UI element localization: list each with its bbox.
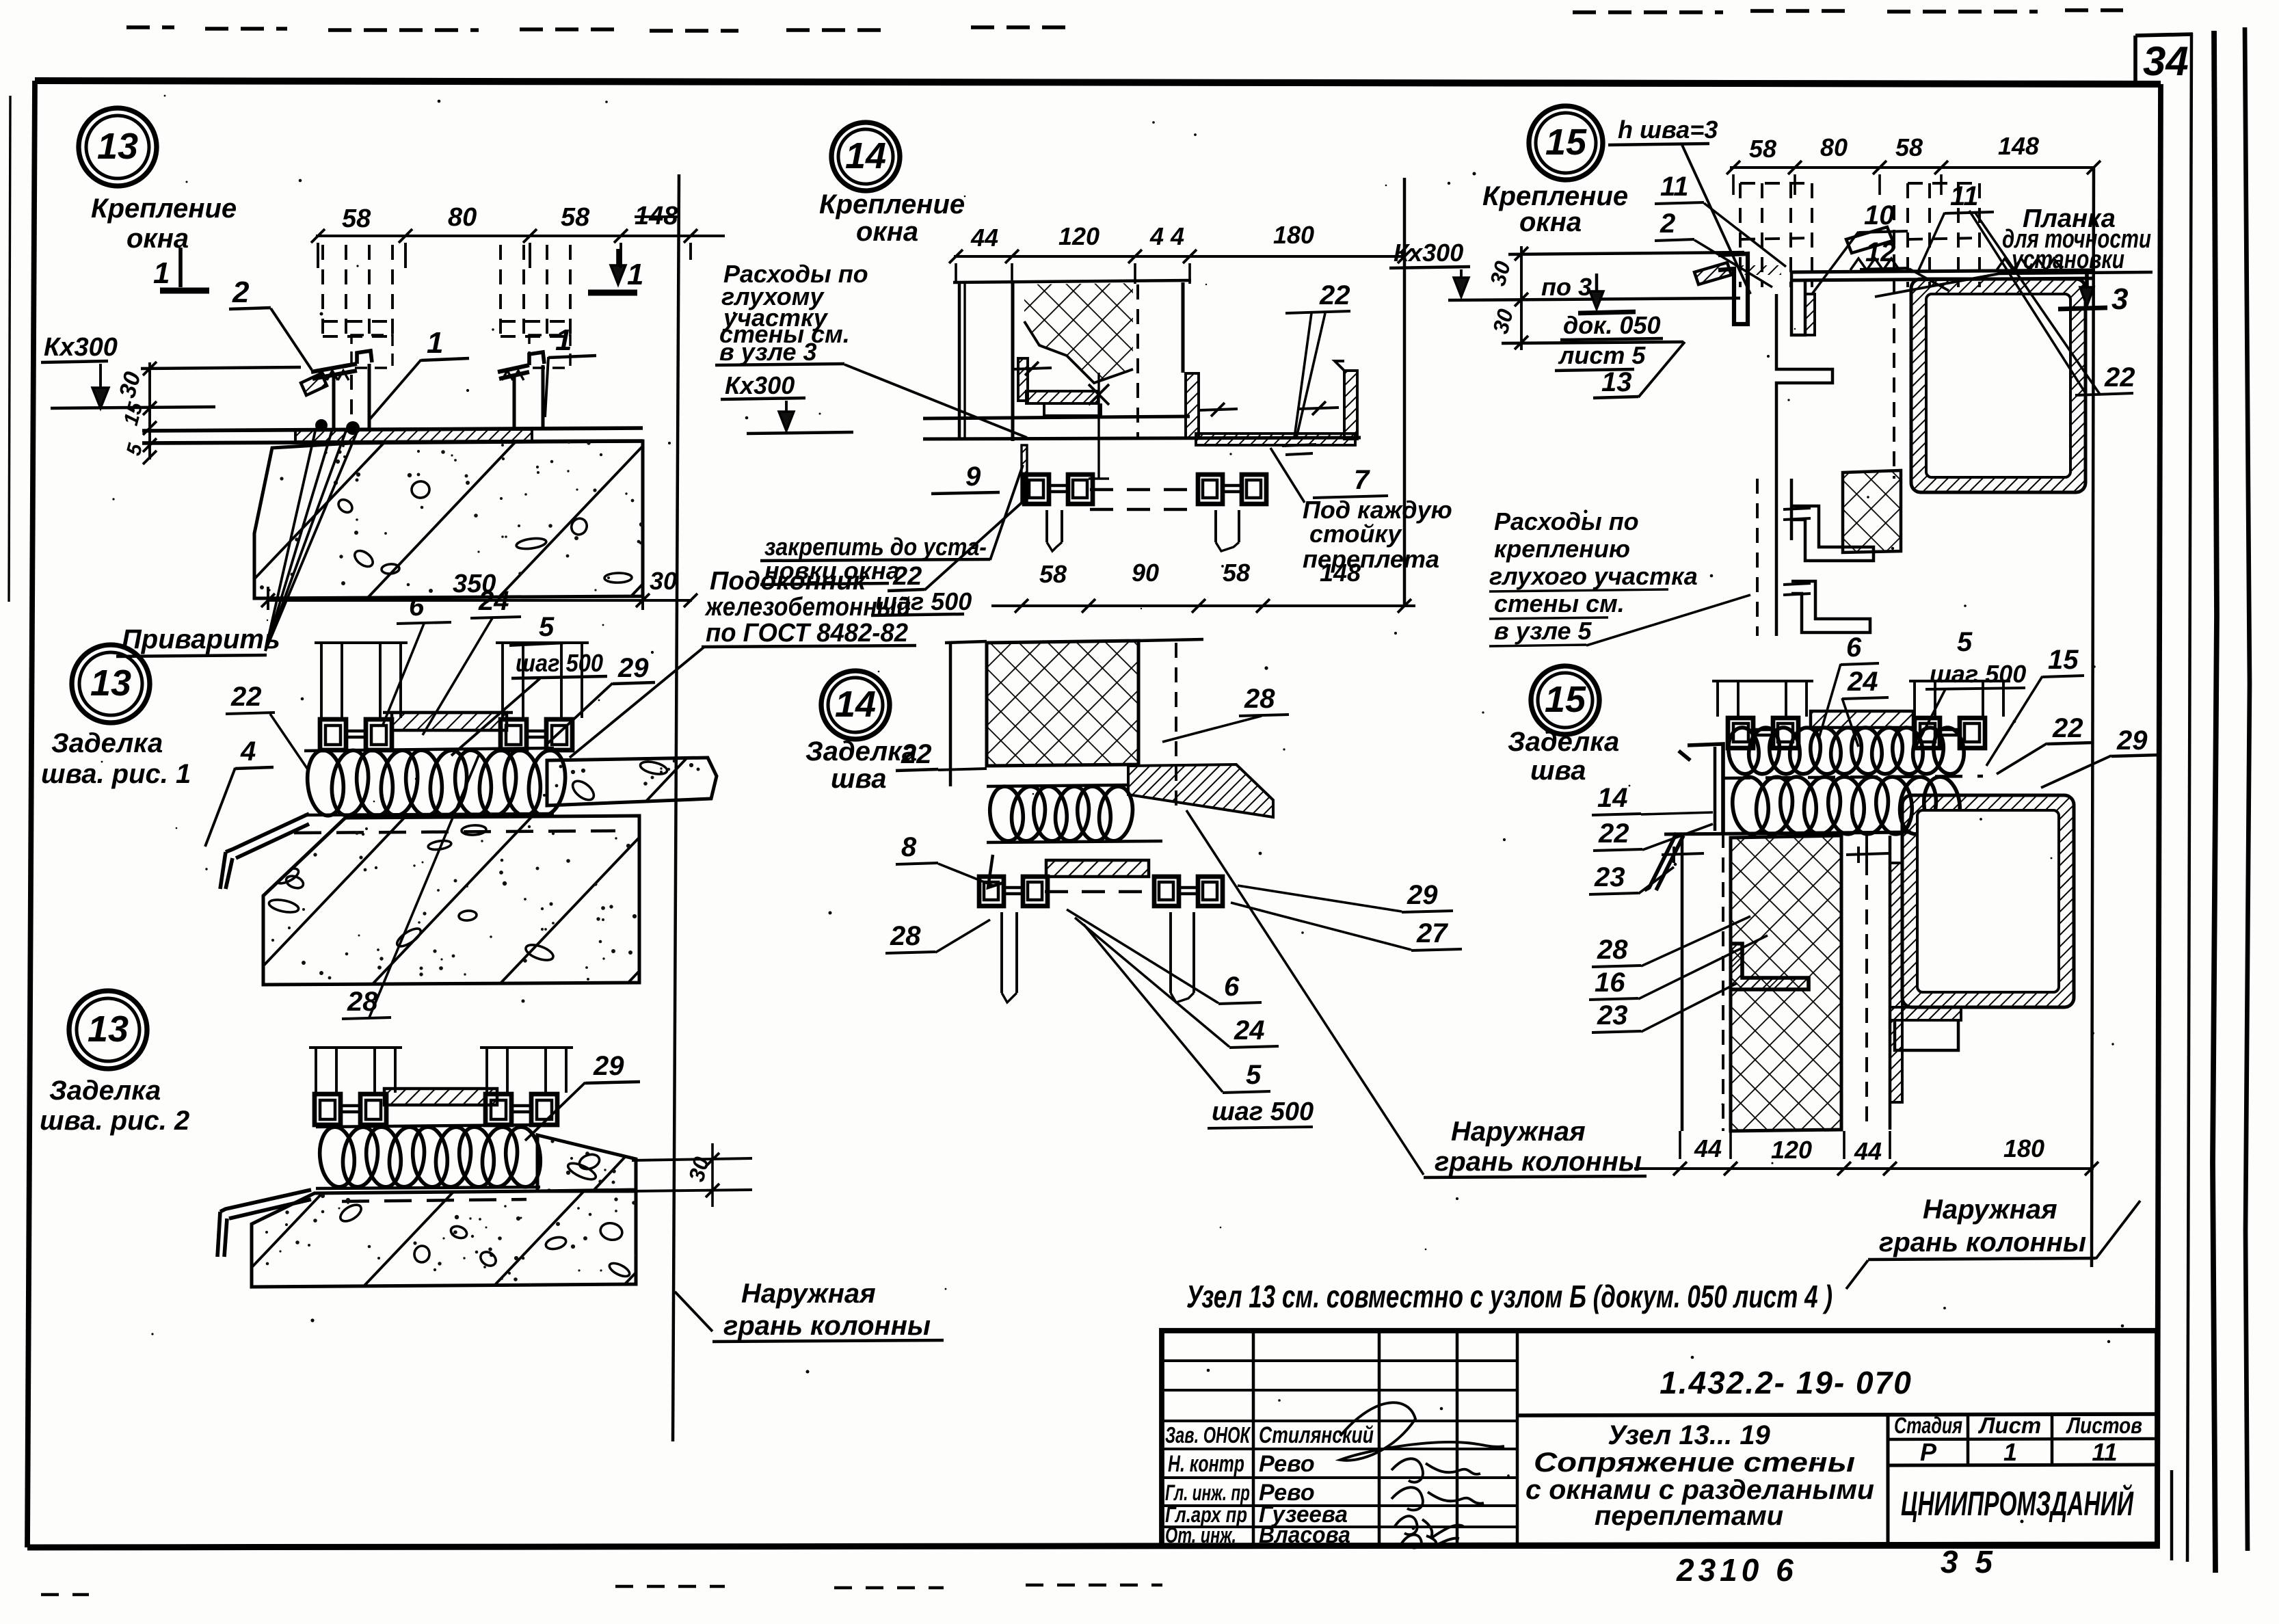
- svg-text:5: 5: [1246, 1060, 1262, 1090]
- svg-text:Заделка: Заделка: [49, 1076, 161, 1106]
- svg-text:шаг 500: шаг 500: [516, 649, 603, 677]
- svg-text:переплета: переплета: [1303, 545, 1439, 573]
- svg-text:23: 23: [1594, 862, 1625, 892]
- svg-text:1: 1: [627, 258, 643, 291]
- svg-text:шва: шва: [831, 764, 886, 794]
- svg-text:28: 28: [890, 921, 921, 951]
- svg-text:Листов: Листов: [2066, 1413, 2142, 1438]
- svg-text:6: 6: [1224, 972, 1240, 1002]
- svg-text:6: 6: [1846, 633, 1862, 663]
- svg-text:180: 180: [1273, 221, 1314, 249]
- svg-text:стены см.: стены см.: [1494, 589, 1625, 617]
- svg-text:6: 6: [409, 591, 425, 622]
- svg-text:3 5: 3 5: [1941, 1544, 1997, 1580]
- svg-text:1: 1: [555, 323, 572, 357]
- svg-text:24: 24: [478, 586, 509, 616]
- svg-text:Н. контр: Н. контр: [1168, 1451, 1244, 1477]
- svg-text:9: 9: [965, 462, 981, 492]
- svg-text:2: 2: [232, 276, 250, 309]
- svg-text:24: 24: [1234, 1015, 1265, 1046]
- svg-text:креплению: креплению: [1494, 535, 1630, 563]
- svg-text:Заделка: Заделка: [1508, 727, 1619, 757]
- svg-text:окна: окна: [856, 217, 918, 247]
- svg-text:29: 29: [617, 653, 649, 683]
- svg-text:16: 16: [1595, 968, 1625, 998]
- svg-text:переплетами: переплетами: [1595, 1501, 1783, 1531]
- svg-text:80: 80: [448, 203, 477, 232]
- svg-text:15: 15: [1545, 679, 1586, 720]
- svg-text:1.432.2- 19- 070: 1.432.2- 19- 070: [1660, 1365, 1913, 1400]
- svg-text:28: 28: [1597, 935, 1628, 965]
- svg-text:Приварить: Приварить: [122, 624, 280, 654]
- svg-text:шаг 500: шаг 500: [875, 587, 972, 615]
- svg-text:Р: Р: [1920, 1438, 1937, 1466]
- svg-text:стойку: стойку: [1309, 520, 1402, 548]
- svg-text:15: 15: [2048, 645, 2079, 675]
- svg-text:11: 11: [2092, 1438, 2117, 1466]
- svg-text:5: 5: [1957, 627, 1973, 657]
- svg-text:80: 80: [1820, 133, 1848, 161]
- svg-text:Стадия: Стадия: [1894, 1413, 1962, 1438]
- svg-text:по ГОСТ 8482-82: по ГОСТ 8482-82: [706, 619, 908, 648]
- svg-text:Заделка: Заделка: [805, 736, 917, 767]
- svg-text:Узел 13... 19: Узел 13... 19: [1608, 1420, 1770, 1450]
- svg-text:22: 22: [1319, 280, 1350, 310]
- svg-text:Гл. инж. пр: Гл. инж. пр: [1165, 1480, 1250, 1505]
- svg-text:148: 148: [635, 202, 678, 230]
- svg-text:58: 58: [342, 204, 371, 233]
- svg-text:грань колонны: грань колонны: [1879, 1227, 2086, 1257]
- svg-text:грань колонны: грань колонны: [1435, 1147, 1642, 1177]
- svg-text:шаг 500: шаг 500: [1930, 660, 2026, 688]
- svg-text:13: 13: [97, 126, 138, 167]
- svg-text:14: 14: [835, 684, 876, 725]
- svg-text:22: 22: [901, 739, 932, 769]
- svg-text:58: 58: [561, 203, 590, 232]
- svg-text:13: 13: [90, 663, 131, 704]
- svg-text:1: 1: [2003, 1438, 2017, 1466]
- svg-text:13: 13: [1601, 367, 1632, 397]
- svg-text:Заделка: Заделка: [51, 728, 163, 758]
- svg-text:22: 22: [892, 562, 922, 591]
- svg-text:34: 34: [2143, 38, 2189, 84]
- svg-text:шва. рис. 1: шва. рис. 1: [41, 759, 191, 789]
- svg-text:Стилянский: Стилянский: [1259, 1422, 1374, 1448]
- svg-text:29: 29: [593, 1051, 624, 1081]
- svg-text:13: 13: [88, 1009, 129, 1050]
- svg-text:2310 6: 2310 6: [1676, 1552, 1798, 1588]
- svg-text:10: 10: [1864, 200, 1895, 230]
- svg-text:лист 5: лист 5: [1558, 341, 1646, 369]
- svg-text:Расходы по: Расходы по: [1494, 507, 1639, 535]
- svg-text:28: 28: [1244, 684, 1275, 714]
- svg-text:44: 44: [970, 224, 998, 252]
- svg-text:ЦНИИПРОМЗДАНИЙ: ЦНИИПРОМЗДАНИЙ: [1901, 1484, 2134, 1523]
- svg-text:в узле 3: в узле 3: [719, 338, 817, 366]
- svg-text:Наружная: Наружная: [1451, 1117, 1586, 1147]
- svg-text:44: 44: [1694, 1134, 1722, 1162]
- svg-text:120: 120: [1058, 222, 1099, 250]
- svg-text:h шва=3: h шва=3: [1618, 116, 1718, 144]
- svg-text:2: 2: [1660, 209, 1675, 239]
- svg-text:11: 11: [1950, 181, 1979, 211]
- svg-text:глухого участка: глухого участка: [1489, 562, 1698, 590]
- svg-text:4 4: 4 4: [1149, 222, 1184, 250]
- svg-text:5: 5: [539, 612, 555, 642]
- svg-text:3: 3: [2111, 282, 2128, 316]
- svg-text:23: 23: [1597, 1000, 1628, 1030]
- svg-text:Наружная: Наружная: [1923, 1195, 2057, 1225]
- svg-text:Сопряжение стены: Сопряжение стены: [1534, 1448, 1855, 1478]
- svg-text:1: 1: [153, 256, 170, 290]
- svg-text:14: 14: [845, 135, 886, 176]
- svg-text:Наружная: Наружная: [741, 1279, 876, 1309]
- svg-text:грань колонны: грань колонны: [723, 1311, 931, 1341]
- svg-text:120: 120: [1771, 1136, 1812, 1164]
- svg-text:44: 44: [1854, 1137, 1882, 1165]
- svg-text:15: 15: [1545, 122, 1587, 163]
- svg-text:29: 29: [2116, 726, 2148, 756]
- svg-text:4: 4: [240, 736, 256, 767]
- svg-text:док. 050: док. 050: [1563, 311, 1661, 339]
- svg-text:11: 11: [1660, 172, 1689, 202]
- svg-text:Кх300: Кх300: [1394, 239, 1463, 267]
- svg-text:58: 58: [1749, 135, 1776, 163]
- svg-text:24: 24: [1847, 667, 1878, 697]
- svg-text:в узле 5: в узле 5: [1494, 617, 1592, 645]
- svg-text:шва: шва: [1530, 756, 1586, 786]
- svg-text:шаг 500: шаг 500: [1212, 1097, 1314, 1126]
- svg-text:по 3: по 3: [1541, 273, 1592, 301]
- svg-text:8: 8: [901, 832, 917, 862]
- svg-text:148: 148: [1998, 132, 2039, 160]
- svg-text:58: 58: [1223, 559, 1250, 587]
- svg-text:22: 22: [1598, 818, 1629, 849]
- svg-text:29: 29: [1407, 880, 1438, 910]
- svg-text:Крепление: Крепление: [91, 194, 237, 224]
- svg-text:28: 28: [347, 987, 378, 1017]
- svg-text:27: 27: [1416, 918, 1448, 948]
- svg-text:Рево: Рево: [1259, 1451, 1315, 1477]
- svg-text:Зав. ОНОК: Зав. ОНОК: [1165, 1422, 1251, 1448]
- svg-text:90: 90: [1132, 559, 1159, 587]
- svg-text:58: 58: [1039, 560, 1067, 588]
- svg-text:14: 14: [1597, 783, 1628, 813]
- svg-text:22: 22: [230, 682, 262, 712]
- svg-text:30: 30: [650, 567, 677, 595]
- svg-text:Узел 13 см. совместно с узло: Узел 13 см. совместно с узлом Б (докум. …: [1186, 1279, 1832, 1314]
- svg-text:Кх300: Кх300: [44, 333, 118, 362]
- svg-text:Крепление: Крепление: [819, 189, 965, 219]
- svg-text:7: 7: [1354, 465, 1370, 495]
- svg-text:шва. рис. 2: шва. рис. 2: [40, 1106, 189, 1136]
- svg-text:Кх300: Кх300: [725, 371, 795, 399]
- svg-text:180: 180: [2003, 1134, 2044, 1162]
- svg-text:1: 1: [427, 326, 443, 360]
- svg-text:22: 22: [2104, 362, 2135, 392]
- svg-text:окна: окна: [1519, 207, 1582, 237]
- svg-text:22: 22: [2052, 713, 2083, 743]
- svg-text:58: 58: [1895, 133, 1923, 161]
- svg-text:Лист: Лист: [1978, 1413, 2042, 1438]
- svg-text:От. инж.: От. инж.: [1165, 1523, 1236, 1547]
- svg-text:Власова: Власова: [1259, 1522, 1350, 1548]
